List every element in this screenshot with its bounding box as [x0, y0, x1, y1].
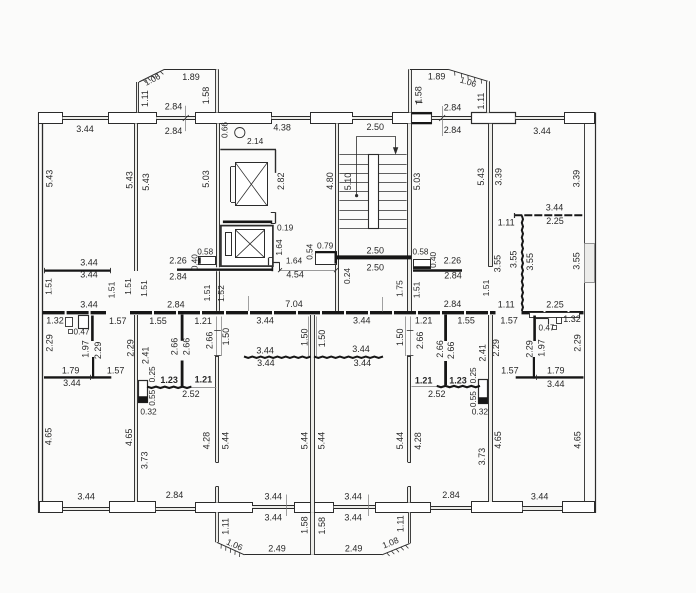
svg-text:4.65: 4.65 [493, 431, 503, 449]
svg-text:0.32: 0.32 [472, 407, 489, 417]
svg-text:1.21: 1.21 [194, 316, 212, 326]
svg-text:2.66: 2.66 [205, 332, 215, 350]
svg-text:2.29: 2.29 [44, 334, 54, 352]
closet top wall dashed [514, 214, 584, 216]
svg-text:2.50: 2.50 [367, 122, 385, 132]
bath south wall left [44, 376, 111, 378]
top wall pier dark [412, 113, 432, 124]
svg-text:2.25: 2.25 [546, 216, 564, 226]
svg-text:1.55: 1.55 [457, 315, 475, 325]
svg-text:3.44: 3.44 [546, 202, 564, 212]
svg-text:3.39: 3.39 [571, 170, 581, 188]
bath vent box 1 [66, 318, 73, 327]
lift shaft 1 door bracket [230, 167, 232, 202]
svg-text:3.55: 3.55 [509, 251, 519, 269]
svg-text:0.40: 0.40 [429, 251, 438, 267]
svg-text:3.44: 3.44 [76, 124, 94, 134]
svg-text:1.97: 1.97 [536, 339, 546, 357]
stair direction line 5.10 [356, 136, 358, 195]
svg-text:3.44: 3.44 [344, 513, 362, 523]
lift 2 bracket [268, 258, 270, 266]
svg-text:1.64: 1.64 [274, 239, 284, 256]
svg-text:1.32: 1.32 [46, 315, 64, 325]
svg-text:2.66: 2.66 [182, 338, 192, 356]
svg-text:1.21: 1.21 [415, 315, 433, 325]
duct box 0.58 left [199, 257, 216, 265]
door dim line in W2 [216, 317, 218, 356]
svg-text:3.44: 3.44 [77, 491, 95, 501]
kitchen partition right lower [444, 361, 447, 385]
svg-text:0.19: 0.19 [277, 223, 294, 233]
bath south wall right [516, 376, 584, 378]
svg-text:1.57: 1.57 [501, 365, 519, 375]
bath partition P1 right [533, 316, 536, 342]
corridor south wall right [522, 311, 584, 314]
top window 3.44 right [515, 116, 564, 119]
svg-text:1.11: 1.11 [140, 90, 150, 107]
svg-text:5.43: 5.43 [141, 173, 151, 191]
svg-text:5.44: 5.44 [395, 432, 405, 450]
dim line 1.50 room A right [308, 317, 310, 357]
bath glyph box right 1.32 [557, 318, 562, 324]
svg-text:1.23: 1.23 [160, 375, 178, 385]
svg-text:2.52: 2.52 [182, 389, 200, 399]
lobby dim line 4.54 [280, 270, 336, 272]
svg-text:3.44: 3.44 [257, 358, 275, 368]
svg-text:2.41: 2.41 [140, 347, 150, 365]
svg-text:0.58: 0.58 [413, 248, 429, 257]
svg-text:2.66: 2.66 [415, 332, 425, 350]
bottom wall corner pier SE [563, 502, 595, 513]
svg-text:2.84: 2.84 [165, 126, 183, 136]
svg-text:3.44: 3.44 [547, 379, 565, 389]
bottom wall corner pier SW [40, 502, 63, 513]
svg-text:3.73: 3.73 [477, 448, 487, 466]
dim line 2.84 right bay [442, 106, 444, 136]
bottom wall pier [295, 503, 334, 513]
svg-text:3.44: 3.44 [256, 315, 274, 325]
svg-text:2.84: 2.84 [442, 490, 460, 500]
svg-text:2.84: 2.84 [165, 102, 183, 112]
svg-text:1.58: 1.58 [299, 516, 309, 534]
svg-text:2.84: 2.84 [444, 299, 462, 309]
svg-text:2.14: 2.14 [247, 136, 264, 146]
duct box 0.79 [316, 252, 337, 265]
svg-text:2.66: 2.66 [170, 338, 180, 356]
wall W2 mid [216, 356, 219, 462]
svg-text:1.64: 1.64 [286, 255, 303, 265]
svg-text:2.66: 2.66 [435, 340, 445, 358]
bath vent box 2 [79, 316, 89, 329]
svg-text:4.28: 4.28 [413, 432, 423, 450]
lift shaft 1 box [236, 163, 268, 206]
kitchen dim line right [412, 386, 437, 388]
svg-text:2.29: 2.29 [126, 339, 136, 357]
garbage chute circle [235, 128, 245, 138]
svg-text:7.04: 7.04 [285, 299, 303, 309]
lift 2 door slot [226, 233, 232, 256]
svg-text:4.80: 4.80 [325, 172, 335, 190]
svg-text:3.44: 3.44 [354, 358, 372, 368]
svg-text:3.44: 3.44 [265, 513, 283, 523]
balcony door left bay [156, 117, 195, 120]
stairwell left wall [336, 123, 339, 311]
svg-text:5.10: 5.10 [343, 173, 353, 191]
svg-text:2.29: 2.29 [491, 339, 501, 357]
kitchen wall zigzag left [147, 387, 191, 388]
svg-text:2.50: 2.50 [367, 245, 385, 255]
svg-text:3.44: 3.44 [353, 315, 371, 325]
bottom window bay room A [252, 506, 295, 509]
bottom wall pier [472, 502, 523, 513]
svg-text:1.58: 1.58 [201, 87, 211, 105]
symbol glyph 0.47 right [553, 326, 557, 330]
svg-text:1.11: 1.11 [498, 300, 515, 310]
svg-text:1.57: 1.57 [109, 316, 127, 326]
svg-text:0.55: 0.55 [469, 391, 478, 407]
bath partition P2 left [92, 357, 94, 379]
top-right bay left edge [409, 69, 412, 112]
svg-text:4.65: 4.65 [44, 428, 54, 446]
svg-text:3.73: 3.73 [139, 452, 149, 470]
svg-text:2.84: 2.84 [444, 270, 462, 280]
bottom window bay room B [334, 506, 376, 509]
room B wavy line 3.44 [314, 357, 383, 358]
svg-text:5.44: 5.44 [300, 432, 310, 450]
svg-text:5.03: 5.03 [412, 173, 422, 191]
svg-text:4.28: 4.28 [201, 432, 211, 450]
lobby door bracket [271, 262, 273, 271]
svg-text:5.43: 5.43 [125, 171, 135, 189]
svg-text:1.51: 1.51 [43, 278, 53, 295]
symbol glyph 0.47 left [69, 330, 73, 334]
svg-text:5.03: 5.03 [201, 170, 211, 188]
bottom window 2.84 right [431, 506, 471, 509]
kitchen wall zigzag right [437, 386, 480, 387]
svg-text:1.55: 1.55 [149, 316, 167, 326]
svg-text:1.50: 1.50 [300, 328, 310, 346]
door jamb rects right corridor [530, 313, 580, 318]
svg-text:0.47: 0.47 [74, 327, 90, 336]
door dim line in W5 [410, 317, 412, 356]
svg-text:3.44: 3.44 [256, 345, 274, 355]
top wall corner pier NW [39, 113, 63, 124]
svg-text:1.51: 1.51 [481, 279, 491, 296]
top wall pier [472, 113, 516, 124]
top wall pier [311, 113, 353, 124]
svg-text:1.79: 1.79 [62, 365, 80, 375]
center wall W3b [311, 315, 314, 512]
svg-text:3.55: 3.55 [492, 255, 502, 273]
svg-text:5.43: 5.43 [476, 168, 486, 186]
svg-text:1.32: 1.32 [563, 314, 581, 324]
bottom wall pier [376, 503, 431, 513]
top wall pier [109, 113, 157, 124]
svg-text:1.21: 1.21 [195, 375, 213, 385]
kitchen door rect right [479, 380, 488, 404]
top-right bay top edge [410, 69, 448, 71]
svg-text:3.44: 3.44 [265, 491, 283, 501]
svg-text:2.49: 2.49 [268, 543, 286, 553]
top-left bay right edge [216, 69, 219, 112]
svg-text:1.50: 1.50 [317, 330, 327, 348]
svg-text:3.44: 3.44 [80, 299, 98, 309]
corridor wall tick [248, 296, 250, 311]
svg-text:3.39: 3.39 [494, 168, 504, 186]
svg-text:2.84: 2.84 [166, 490, 184, 500]
stair stringer [369, 155, 379, 229]
svg-text:2.29: 2.29 [93, 342, 103, 360]
top wall pier [393, 113, 412, 124]
top-left bay diagonal hatched [139, 69, 165, 82]
top wall long pier over lift [196, 113, 272, 124]
svg-text:0.66: 0.66 [220, 122, 229, 138]
dim line 1.50 room B left [316, 317, 318, 357]
svg-text:4.54: 4.54 [286, 269, 304, 279]
wall W4 lower [489, 315, 492, 502]
svg-text:0.58: 0.58 [197, 248, 213, 257]
corridor south wall left [43, 311, 106, 314]
bottom-left bay diagonal hatched [217, 542, 245, 555]
svg-text:1.23: 1.23 [449, 375, 467, 385]
svg-text:1.51: 1.51 [123, 278, 133, 295]
bath partition P1 left [91, 316, 94, 342]
room A wavy line 3.44 [244, 357, 311, 358]
svg-text:5.43: 5.43 [44, 170, 54, 188]
svg-text:1.89: 1.89 [182, 72, 200, 82]
top window 2.50 stair [352, 116, 393, 119]
bottom-left bay left edge [216, 512, 218, 542]
kitchen partition right upper [444, 315, 447, 341]
svg-text:0.54: 0.54 [305, 243, 314, 259]
dim line 1.50 room B right [405, 317, 407, 357]
balcony door right bay [432, 117, 472, 120]
kitchen dim line left [191, 387, 216, 389]
svg-text:2.41: 2.41 [477, 344, 487, 362]
svg-text:3.44: 3.44 [531, 491, 549, 501]
left outer wall [38, 113, 40, 514]
bottom bays bottom edge [244, 554, 382, 556]
svg-text:1.75: 1.75 [394, 280, 404, 297]
svg-text:3.55: 3.55 [525, 253, 535, 271]
bottom wall pier [196, 503, 253, 513]
kitchen door rect left [139, 381, 148, 403]
svg-text:2.26: 2.26 [444, 255, 462, 265]
svg-text:1.89: 1.89 [428, 71, 446, 81]
wall W1 upper [134, 123, 137, 271]
svg-text:1.52: 1.52 [216, 285, 226, 302]
bath partition P2 right [533, 357, 535, 379]
stair treads [339, 154, 406, 156]
svg-text:5.44: 5.44 [220, 432, 230, 450]
svg-text:2.52: 2.52 [428, 389, 446, 399]
top-right bay right edge [487, 81, 490, 112]
svg-text:2.29: 2.29 [573, 334, 583, 352]
svg-text:2.66: 2.66 [446, 342, 456, 360]
svg-text:2.84: 2.84 [167, 299, 185, 309]
right outer wall [595, 113, 597, 514]
svg-text:1.51: 1.51 [106, 281, 116, 298]
closet left wall wavy [522, 216, 523, 311]
kitchen partition left upper [181, 315, 184, 341]
wall W2 corridor [216, 271, 219, 311]
lift shaft 2 enclosure [221, 226, 273, 267]
dim line bottom window B [368, 495, 370, 517]
svg-text:4.38: 4.38 [273, 122, 291, 132]
svg-text:3.44: 3.44 [63, 378, 81, 388]
lift shaft 2 box [236, 230, 265, 258]
wall W2 low [216, 487, 219, 503]
top-left bay top edge [165, 69, 218, 71]
bottom window 3.44 left [63, 507, 109, 510]
bath step lines right [536, 318, 548, 320]
svg-text:0.55: 0.55 [148, 389, 157, 405]
svg-text:2.84: 2.84 [444, 102, 462, 112]
svg-text:3.55: 3.55 [571, 252, 581, 270]
svg-text:1.57: 1.57 [107, 365, 125, 375]
svg-text:1.11: 1.11 [476, 93, 486, 110]
svg-text:4.65: 4.65 [124, 429, 134, 447]
lift shaft top wall [220, 149, 276, 151]
svg-text:1.58: 1.58 [317, 517, 327, 535]
dim line bottom window A [286, 495, 288, 517]
svg-text:0.25: 0.25 [148, 366, 157, 382]
svg-text:2.84: 2.84 [444, 125, 462, 135]
svg-text:5.44: 5.44 [316, 432, 326, 450]
right wall window [585, 244, 595, 283]
svg-text:1.11: 1.11 [498, 217, 515, 227]
svg-text:0.32: 0.32 [140, 406, 157, 416]
top-right bay diagonal hatched [448, 69, 488, 81]
stair arrow [357, 136, 396, 138]
svg-text:1.21: 1.21 [415, 375, 433, 385]
svg-text:2.50: 2.50 [367, 263, 385, 273]
dim line 2.84 left bay [185, 106, 187, 131]
lift shaft right wall upper [275, 150, 277, 173]
svg-text:1.50: 1.50 [395, 328, 405, 346]
bottom wall pier [110, 502, 156, 513]
svg-text:2.26: 2.26 [169, 255, 187, 265]
wall W1 lower [134, 315, 137, 502]
corridor south wall main [130, 311, 496, 314]
bottom window 2.84 left [156, 507, 196, 510]
svg-text:2.84: 2.84 [169, 271, 187, 281]
svg-text:3.44: 3.44 [533, 126, 551, 136]
svg-text:1.51: 1.51 [139, 280, 149, 297]
svg-text:0.25: 0.25 [469, 367, 478, 383]
svg-text:1.51: 1.51 [412, 281, 422, 298]
bottom bays shared wall [311, 512, 314, 555]
top-left bay left edge [136, 82, 139, 113]
svg-text:3.44: 3.44 [80, 269, 98, 279]
bracket 0.19 [275, 212, 277, 223]
dim line 1.50 room A left [221, 317, 223, 357]
svg-text:0.24: 0.24 [343, 268, 352, 284]
svg-text:1.79: 1.79 [547, 365, 565, 375]
lift divider wall [223, 221, 272, 224]
top wall corner pier NE [565, 113, 595, 124]
svg-text:3.44: 3.44 [344, 491, 362, 501]
left room partition 3.44 [44, 270, 111, 272]
kitchen partition left lower [181, 361, 184, 388]
top window 3.44 left [63, 116, 109, 119]
svg-text:1.11: 1.11 [221, 518, 231, 535]
svg-text:1.50: 1.50 [221, 328, 231, 346]
svg-text:0.79: 0.79 [317, 240, 334, 250]
top window 4.38 lobby [272, 116, 311, 119]
svg-text:3.44: 3.44 [352, 344, 370, 354]
svg-text:2.25: 2.25 [546, 300, 564, 310]
svg-text:4.65: 4.65 [573, 431, 583, 449]
svg-text:3.44: 3.44 [80, 257, 98, 267]
svg-text:2.82: 2.82 [276, 172, 286, 190]
bottom-right bay diagonal hatched [382, 543, 410, 555]
wall W5 low [408, 487, 411, 503]
wall W2 (lift left) upper [216, 123, 219, 267]
svg-text:1.51: 1.51 [202, 284, 212, 301]
svg-text:1.97: 1.97 [81, 340, 91, 358]
svg-text:2.49: 2.49 [345, 543, 363, 553]
bottom-right bay right edge [408, 512, 410, 543]
duct box 0.58 right [414, 260, 431, 269]
stairwell front wall [336, 255, 411, 259]
bottom window 3.44 right [523, 507, 562, 510]
wall W5 mid [408, 356, 411, 462]
corridor north wall [177, 269, 272, 271]
stairwell right wall W5 [408, 123, 411, 311]
svg-text:1.57: 1.57 [500, 315, 518, 325]
svg-text:1.58: 1.58 [413, 86, 423, 104]
corridor north wall right [413, 269, 462, 271]
svg-text:1.11: 1.11 [395, 515, 405, 532]
svg-text:2.29: 2.29 [524, 340, 534, 358]
wall W4 upper [489, 124, 492, 267]
